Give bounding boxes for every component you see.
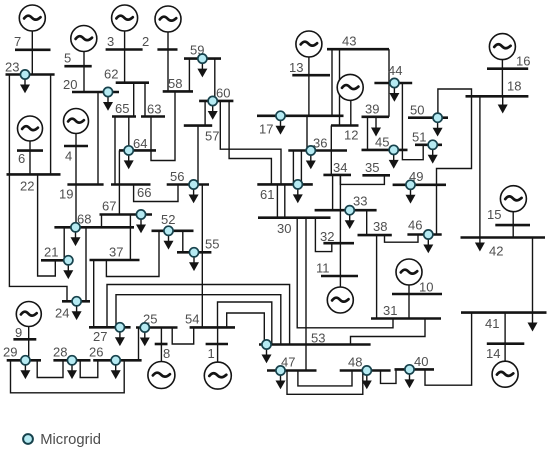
wire 41-40 jog	[425, 313, 472, 386]
svg-text:26: 26	[89, 345, 103, 360]
wire 23-22	[50, 75, 52, 175]
svg-text:60: 60	[216, 86, 230, 101]
microgrid M27	[115, 323, 124, 332]
bus 5 bar	[64, 65, 91, 68]
bus 23 label	[5, 60, 19, 75]
svg-text:27: 27	[93, 329, 107, 344]
bus 32 bar	[323, 242, 354, 245]
bus 29 bar	[7, 359, 41, 362]
bus 20 label	[63, 77, 77, 92]
bus 52 bar	[152, 230, 194, 233]
bus 56 bar	[167, 183, 209, 186]
svg-text:15: 15	[487, 207, 501, 222]
load arrow M17	[276, 120, 286, 134]
bus 43 label	[342, 34, 356, 49]
bus 16 bar	[487, 67, 528, 70]
bus 6 bar	[17, 149, 43, 152]
svg-text:22: 22	[20, 179, 34, 194]
wire 39-45	[367, 117, 369, 150]
bus 8 bar	[155, 343, 168, 346]
microgrid M47	[276, 366, 285, 375]
svg-text:48: 48	[348, 355, 362, 370]
wire 49-46	[436, 185, 438, 235]
bus 42 label	[489, 244, 503, 259]
svg-text:13: 13	[289, 60, 303, 75]
load arrow M68	[71, 232, 81, 246]
bus 52 label	[161, 212, 175, 227]
wire 30-31 jog	[297, 218, 393, 328]
wire 41-14	[504, 313, 506, 344]
wire 18-42	[479, 96, 481, 237]
wire 65-66	[114, 117, 116, 185]
bus 17 label	[259, 122, 273, 137]
bus 38 label	[373, 219, 387, 234]
wire 62-63	[144, 83, 146, 117]
wire stub G11	[339, 175, 341, 288]
wire 37-52 jog	[106, 231, 159, 277]
bus 64 bar	[119, 149, 156, 152]
load arrow M40	[405, 374, 415, 388]
bus 3 label	[107, 34, 114, 49]
svg-text:43: 43	[342, 34, 356, 49]
svg-text:61: 61	[260, 187, 274, 202]
load arrow M48	[362, 375, 372, 389]
bus 39 label	[365, 102, 379, 117]
wire 38-31	[376, 235, 378, 318]
wire 25-26	[138, 328, 140, 361]
microgrid M23	[20, 70, 29, 79]
generator G6	[18, 116, 43, 141]
microgrid M21	[64, 256, 73, 265]
bus 40 bar	[395, 368, 435, 371]
wire 44-45-51 jog	[402, 83, 423, 160]
bus 11 bar	[321, 275, 358, 278]
load arrow M61	[293, 189, 303, 203]
microgrid M28	[67, 356, 76, 365]
svg-text:44: 44	[388, 63, 402, 78]
generator G9	[16, 302, 41, 327]
wire 48-40 U	[381, 369, 397, 383]
svg-text:32: 32	[320, 229, 334, 244]
bus 54 bar	[190, 326, 235, 329]
legend label Microgrid	[40, 432, 101, 448]
wire 50-18	[438, 89, 472, 118]
wire stub G14	[504, 344, 506, 362]
bus 68 label	[77, 212, 91, 227]
wire 52-55	[182, 231, 184, 253]
microgrid M56	[189, 180, 198, 189]
microgrid M55	[189, 248, 198, 257]
svg-text:17: 17	[259, 122, 273, 137]
microgrid M64	[124, 146, 133, 155]
bus 58 bar	[163, 90, 193, 93]
bus 8 label	[163, 346, 170, 361]
load arrow M36	[306, 155, 316, 169]
load 18 arrow	[498, 96, 508, 113]
microgrid M25	[140, 323, 149, 332]
microgrid M46	[424, 230, 433, 239]
bus 63 bar	[141, 115, 165, 118]
svg-text:28: 28	[53, 345, 67, 360]
bus 34 bar	[323, 174, 351, 177]
bus 35 bar	[362, 174, 390, 177]
wire stub G4	[75, 133, 77, 228]
svg-text:46: 46	[408, 218, 422, 233]
wire 68-24	[85, 227, 87, 301]
microgrid M20	[103, 87, 112, 96]
load arrow M59	[197, 63, 207, 77]
load arrow M45	[389, 154, 399, 168]
svg-text:29: 29	[3, 345, 17, 360]
bus 67 label	[102, 199, 116, 214]
bus 3 bar	[106, 48, 143, 51]
wire stub G3	[124, 30, 126, 83]
svg-text:38: 38	[373, 219, 387, 234]
bus 12 bar	[331, 124, 359, 127]
bus 46 bar	[407, 233, 441, 236]
wire stub G13	[308, 56, 310, 116]
bus 4 label	[65, 149, 72, 164]
wire stub G10	[408, 284, 410, 319]
bus 45 label	[375, 135, 389, 150]
bus 57 label	[205, 129, 219, 144]
bus 29 label	[3, 345, 17, 360]
wire 60-61 b	[229, 101, 271, 184]
wire 37-27	[93, 260, 95, 327]
bus 2 bar	[157, 48, 177, 51]
bus 16 label	[516, 54, 530, 69]
bus 40 label	[414, 354, 428, 369]
microgrid M61	[293, 180, 302, 189]
load arrow M52	[164, 235, 174, 249]
bus 49 label	[409, 169, 423, 184]
wire 22-21 jog	[38, 174, 56, 276]
generator G5	[71, 26, 97, 52]
svg-text:14: 14	[486, 346, 500, 361]
microgrid M36	[306, 146, 315, 155]
bus 6 label	[18, 151, 25, 166]
generator G12	[337, 74, 363, 100]
wire 34-33	[332, 175, 334, 210]
load arrow M26	[111, 365, 121, 379]
bus 13 bar	[292, 74, 330, 77]
bus 31 bar	[371, 317, 441, 320]
load 42 arrow	[475, 238, 485, 252]
bus 12 label	[344, 128, 358, 143]
bus 19 label	[59, 187, 73, 202]
bus 61 bar	[257, 183, 313, 186]
svg-text:65: 65	[115, 101, 129, 116]
wire 29-28 U	[37, 360, 63, 377]
svg-text:33: 33	[353, 194, 367, 209]
bus 60 label	[216, 86, 230, 101]
bus 18 bar	[466, 95, 529, 98]
wire 18-49 jog	[437, 96, 472, 185]
load arrow M46	[423, 239, 433, 253]
wire 56-54	[201, 185, 203, 328]
load arrow M49	[406, 189, 416, 203]
bus 67 bar	[100, 213, 153, 216]
load arrow M29	[20, 365, 30, 379]
wire 66-56 U	[134, 185, 178, 202]
svg-text:7: 7	[14, 34, 21, 49]
bus 65 label	[115, 101, 129, 116]
bus 53 bar	[259, 343, 371, 346]
bus 44 bar	[374, 82, 412, 85]
load arrow M67	[136, 219, 146, 233]
wire stub G16	[501, 59, 503, 97]
bus 49 bar	[393, 184, 446, 187]
bus 53 label	[311, 331, 325, 346]
svg-text:39: 39	[365, 102, 379, 117]
wire 29-26 U	[11, 360, 125, 393]
wire 20-19	[97, 92, 99, 185]
microgrid M44	[390, 78, 399, 87]
wire 43-17	[331, 49, 333, 116]
bus 27 label	[93, 329, 107, 344]
generator G4	[64, 109, 89, 134]
microgrid M50	[433, 113, 442, 122]
wire 17-36	[306, 116, 308, 151]
svg-text:57: 57	[205, 129, 219, 144]
generator G8	[148, 362, 175, 389]
load arrow M50	[433, 122, 443, 136]
svg-text:20: 20	[63, 77, 77, 92]
wire 25-54 U	[172, 327, 194, 344]
bus 48 bar	[340, 369, 391, 372]
bus 22 bar	[7, 173, 61, 176]
svg-text:10: 10	[419, 280, 433, 295]
bus 66 bar	[111, 183, 151, 186]
generator G11	[327, 287, 353, 313]
svg-text:5: 5	[64, 51, 71, 66]
svg-text:56: 56	[170, 169, 184, 184]
generator G1	[204, 362, 231, 389]
bus 44 label	[388, 63, 402, 78]
bus 66 label	[137, 185, 151, 200]
generator G16	[489, 34, 515, 60]
svg-text:50: 50	[410, 103, 424, 118]
wire stub G8	[160, 328, 162, 363]
bus 21 bar	[41, 259, 73, 262]
wire 34-35 U	[340, 175, 384, 185]
bus 15 label	[487, 207, 501, 222]
load arrow M21	[63, 265, 73, 279]
bus 36 label	[313, 136, 327, 151]
load 41 arrow	[528, 313, 538, 332]
bus 41 bar	[461, 311, 547, 314]
wire 54-53 b	[227, 313, 265, 345]
svg-text:45: 45	[375, 135, 389, 150]
svg-text:4: 4	[65, 149, 72, 164]
bus 28 label	[53, 345, 67, 360]
bus 28 bar	[53, 359, 90, 362]
load arrow M64	[124, 155, 134, 169]
bus 45 bar	[362, 149, 408, 152]
wire 61-30 a	[276, 184, 278, 217]
bus 51 label	[412, 130, 426, 145]
bus 55 bar	[177, 251, 211, 254]
bus 10 label	[419, 280, 433, 295]
bus 56 label	[170, 169, 184, 184]
microgrid M67	[136, 210, 145, 219]
load arrow M53	[262, 349, 272, 363]
svg-text:6: 6	[18, 151, 25, 166]
bus 48 label	[348, 355, 362, 370]
wire 43-12	[339, 49, 341, 125]
bus 9 label	[15, 325, 22, 340]
wire 33-38	[366, 210, 368, 235]
svg-text:51: 51	[412, 130, 426, 145]
bus 68 bar	[54, 226, 134, 229]
wire 60-57	[204, 101, 206, 126]
svg-text:24: 24	[55, 306, 69, 321]
svg-text:64: 64	[133, 136, 147, 151]
svg-text:66: 66	[137, 185, 151, 200]
wire 64-66-67	[118, 150, 120, 214]
generator G2	[155, 6, 181, 32]
load arrow M25	[140, 332, 150, 346]
svg-text:41: 41	[485, 316, 499, 331]
load arrow M55	[189, 257, 199, 271]
svg-text:67: 67	[102, 199, 116, 214]
load arrow M23	[20, 79, 30, 93]
wire stub G12	[350, 99, 352, 125]
svg-text:54: 54	[185, 312, 199, 327]
wire 60-61 a	[220, 101, 281, 184]
bus 41 label	[485, 316, 499, 331]
wire stub G1	[217, 327, 219, 363]
generator G7	[19, 5, 45, 31]
microgrid M40	[405, 365, 414, 374]
bus 50 label	[410, 103, 424, 118]
bus 63 label	[147, 102, 161, 117]
svg-text:9: 9	[15, 325, 22, 340]
bus 59 label	[190, 43, 204, 58]
svg-text:58: 58	[168, 76, 182, 91]
svg-text:12: 12	[344, 128, 358, 143]
svg-text:55: 55	[205, 237, 219, 252]
bus 26 label	[89, 345, 103, 360]
bus 5 label	[64, 51, 71, 66]
load arrow M47	[276, 375, 286, 389]
wire 27-53 a	[107, 285, 290, 345]
wire 67-37	[129, 215, 131, 261]
load 39 arrow	[371, 117, 381, 137]
svg-text:23: 23	[5, 60, 19, 75]
load arrow M51	[428, 149, 438, 163]
wire 68-21	[63, 227, 65, 260]
svg-text:2: 2	[142, 34, 149, 49]
bus 21 label	[44, 245, 58, 260]
wire 47-48 U2	[287, 371, 363, 395]
bus 37 label	[109, 245, 123, 260]
bus 37 bar	[90, 259, 140, 262]
wire 61-30 b	[284, 184, 286, 217]
microgrid M33	[345, 206, 354, 215]
bus 62 label	[104, 67, 118, 82]
bus 14 label	[486, 346, 500, 361]
bus 62 bar	[116, 81, 149, 84]
microgrid M45	[389, 145, 398, 154]
svg-text:Microgrid: Microgrid	[40, 432, 101, 448]
bus 13 label	[289, 60, 303, 75]
wire stub G6	[29, 140, 31, 174]
wire 31-53 jog	[351, 319, 426, 345]
wire 65-64	[128, 117, 130, 151]
bus 33 bar	[315, 209, 377, 212]
wire stub G15	[512, 211, 514, 238]
bus 65 bar	[112, 115, 136, 118]
bus 15 bar	[495, 224, 530, 227]
wire 30-32 jog	[315, 218, 331, 252]
bus 34 label	[333, 160, 347, 175]
bus 27 bar	[89, 326, 131, 329]
wire 36-61 b	[300, 151, 302, 185]
load arrow M56	[189, 189, 199, 203]
svg-text:11: 11	[316, 261, 330, 276]
bus 7 bar	[15, 48, 51, 51]
microgrid M26	[111, 356, 120, 365]
microgrid M24	[72, 297, 81, 306]
generator G15	[500, 186, 526, 212]
bus 51 bar	[415, 144, 442, 147]
legend microgrid symbol	[23, 434, 33, 444]
microgrid M53	[262, 340, 271, 349]
wire 23-24 left run	[9, 75, 67, 302]
wire 59-60	[214, 59, 216, 101]
bus 50 bar	[408, 116, 448, 119]
microgrid M68	[71, 223, 80, 232]
bus 57 bar	[184, 124, 212, 127]
bus 58 label	[168, 76, 182, 91]
wire 42-41	[532, 238, 534, 313]
bus 24 label	[55, 306, 69, 321]
bus 9 bar	[13, 338, 36, 341]
bus 35 label	[365, 160, 379, 175]
wire 47-48 U1	[298, 371, 352, 386]
wire 12-36-34	[330, 126, 332, 175]
bus 33 label	[353, 194, 367, 209]
microgrid M49	[406, 180, 415, 189]
wire stub G2	[167, 31, 169, 91]
svg-text:16: 16	[516, 54, 530, 69]
svg-text:31: 31	[383, 303, 397, 318]
svg-text:1: 1	[208, 346, 215, 361]
bus 20 bar	[72, 91, 119, 94]
wire 63-58 U	[151, 91, 175, 160]
svg-text:63: 63	[147, 102, 161, 117]
load arrow M28	[67, 365, 77, 379]
wire stub G7	[31, 30, 33, 75]
bus 4 bar	[64, 145, 88, 148]
bus 1 bar	[206, 343, 228, 346]
bus 43 bar	[327, 48, 389, 51]
bus 26 bar	[93, 359, 141, 362]
bus 54 label	[185, 312, 199, 327]
microgrid M51	[428, 140, 437, 149]
bus 23 bar	[6, 73, 55, 76]
generator G13	[296, 31, 322, 57]
svg-text:34: 34	[333, 160, 347, 175]
wire 36-61 a	[292, 151, 294, 185]
load arrow M44	[389, 88, 399, 102]
load arrow M60	[208, 106, 218, 120]
generator G3	[112, 5, 138, 31]
wire 59-58	[188, 59, 190, 92]
bus 39 bar	[362, 116, 390, 119]
bus 25 bar	[136, 326, 178, 329]
